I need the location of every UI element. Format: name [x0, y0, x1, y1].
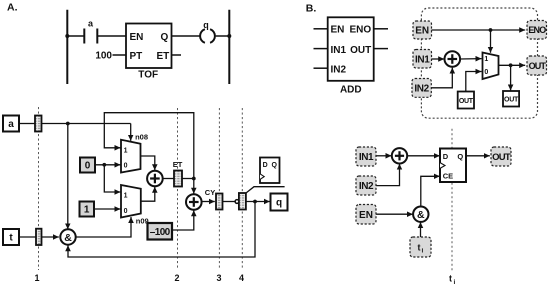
svg-text:0: 0 — [124, 163, 128, 170]
svg-text:q: q — [276, 198, 282, 209]
svg-text:EN: EN — [130, 32, 144, 43]
svg-text:3: 3 — [216, 273, 221, 283]
svg-text:&: & — [64, 232, 72, 244]
svg-text:CE: CE — [443, 172, 453, 181]
svg-text:n08: n08 — [135, 132, 148, 141]
svg-text:IN2: IN2 — [359, 181, 374, 192]
svg-text:B.: B. — [306, 2, 317, 14]
svg-text:0: 0 — [484, 69, 488, 76]
svg-text:2: 2 — [174, 273, 179, 283]
svg-text:CY: CY — [205, 188, 215, 197]
svg-text:ADD: ADD — [340, 84, 362, 95]
svg-text:ET: ET — [157, 51, 170, 62]
svg-text:0: 0 — [124, 208, 128, 215]
svg-text:ET: ET — [173, 160, 183, 169]
svg-text:ENO: ENO — [528, 25, 546, 35]
svg-text:Q: Q — [272, 162, 278, 169]
svg-text:TOF: TOF — [138, 70, 158, 81]
svg-text:4: 4 — [239, 273, 244, 283]
svg-text:IN1: IN1 — [415, 54, 430, 65]
svg-text:EN: EN — [415, 26, 429, 37]
svg-text:OUT: OUT — [492, 152, 511, 163]
svg-text:PT: PT — [130, 51, 143, 62]
svg-text:n09: n09 — [136, 216, 149, 225]
svg-text:1: 1 — [484, 56, 488, 63]
svg-text:t: t — [449, 274, 452, 284]
svg-text:IN1: IN1 — [331, 45, 347, 56]
svg-text:q: q — [203, 20, 209, 30]
svg-text:–100: –100 — [150, 227, 171, 238]
svg-text:&: & — [417, 209, 425, 221]
svg-text:t: t — [418, 242, 421, 252]
svg-text:A.: A. — [7, 2, 18, 14]
svg-text:a: a — [8, 119, 14, 130]
svg-text:1: 1 — [84, 205, 90, 216]
svg-text:EN: EN — [331, 25, 345, 36]
svg-text:EN: EN — [359, 210, 373, 221]
svg-text:IN1: IN1 — [359, 152, 374, 163]
svg-text:OUT: OUT — [350, 45, 371, 56]
svg-text:D: D — [443, 152, 449, 161]
svg-text:100: 100 — [95, 51, 112, 62]
svg-text:1: 1 — [34, 273, 39, 283]
svg-text:IN2: IN2 — [331, 64, 347, 75]
svg-text:0: 0 — [85, 161, 91, 172]
svg-text:OUT: OUT — [459, 98, 474, 105]
svg-text:ENO: ENO — [350, 25, 372, 36]
svg-text:i: i — [454, 279, 456, 286]
svg-text:1: 1 — [124, 193, 128, 200]
svg-text:OUT: OUT — [529, 61, 547, 71]
svg-text:Q: Q — [457, 152, 463, 161]
svg-text:i: i — [422, 248, 424, 255]
svg-text:D: D — [263, 162, 268, 169]
svg-text:Q: Q — [161, 32, 169, 43]
svg-text:IN2: IN2 — [414, 83, 429, 94]
svg-text:OUT: OUT — [504, 97, 519, 104]
svg-text:1: 1 — [124, 147, 128, 154]
